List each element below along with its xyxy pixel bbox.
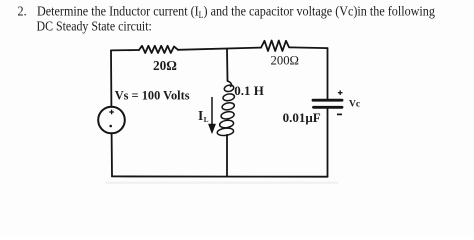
- capacitor C bottom plate: [314, 106, 343, 109]
- capacitor plus sign: [338, 90, 343, 95]
- resistor R1 zigzag: [139, 46, 178, 53]
- inductor L coil: [217, 81, 235, 136]
- capacitor minus sign: [337, 113, 342, 115]
- voltage source plus sign: [109, 110, 114, 115]
- faint scan smudge under bottom wire: [106, 182, 338, 184]
- wire top-right segment: [291, 46, 328, 49]
- wire top-left segment: [111, 49, 139, 51]
- resistor R2 zigzag: [261, 41, 291, 52]
- svg-text:Determine the Inductor current: Determine the Inductor current (IL) and …: [37, 3, 435, 20]
- wire middle upper (top to inductor): [226, 49, 229, 81]
- svg-text:200Ω: 200Ω: [271, 54, 299, 68]
- svg-text:0.1 H: 0.1 H: [234, 83, 264, 98]
- wire top-middle segment: [178, 48, 261, 50]
- label Vs value: [115, 88, 190, 102]
- wire right upper (top to capacitor): [327, 48, 329, 99]
- svg-text:L: L: [204, 116, 209, 124]
- wire right lower (capacitor to bottom): [327, 109, 329, 177]
- problem statement line 1: [18, 3, 27, 19]
- voltage source minus dot: [109, 125, 112, 128]
- wire middle lower (inductor to bottom): [226, 135, 228, 177]
- svg-text:2.: 2.: [18, 3, 27, 19]
- capacitor C top plate: [313, 99, 342, 102]
- inductor current arrow IL: [208, 97, 215, 134]
- svg-text:I: I: [198, 108, 203, 123]
- svg-text:0.01μF: 0.01μF: [283, 110, 321, 125]
- svg-text:Vc: Vc: [349, 99, 360, 109]
- problem statement line 2: [37, 19, 152, 34]
- svg-text:Vs = 100 Volts: Vs = 100 Volts: [115, 88, 190, 102]
- wire left lower (source to bottom): [111, 133, 113, 176]
- wire left upper (to source): [110, 50, 112, 106]
- wire bottom: [112, 175, 328, 177]
- voltage source Vs circle: [98, 107, 125, 134]
- svg-text:20Ω: 20Ω: [153, 58, 177, 73]
- svg-text:DC Steady State circuit:: DC Steady State circuit:: [37, 19, 152, 34]
